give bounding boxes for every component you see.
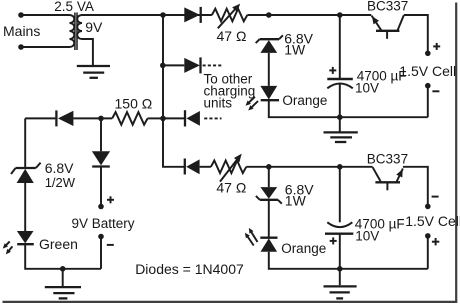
- diode D7: [92, 151, 110, 166]
- node 9V battery plus terminal: [98, 204, 104, 210]
- node junction rail1 zener column: [266, 12, 272, 18]
- wire mains bottom lead: [21, 46, 70, 48]
- capacitor C2 plus: [330, 237, 337, 244]
- diode D1: [184, 7, 200, 23]
- wire row3 right segment: [163, 117, 184, 119]
- ground bottom left: [45, 269, 81, 299]
- capacitor C1 plus: [329, 67, 336, 74]
- svg-text:9V: 9V: [85, 19, 103, 35]
- svg-text:BC337: BC337: [367, 152, 408, 167]
- svg-text:1W: 1W: [285, 193, 307, 209]
- label battery plus: [107, 196, 114, 203]
- node junction rail3 zener column: [266, 164, 272, 170]
- ground top section: [324, 117, 358, 142]
- LED orange bottom light arrows: [250, 230, 258, 242]
- LED orange top: [260, 86, 279, 100]
- node cell1 plus terminal: [425, 51, 431, 57]
- wire zener to green led: [24, 183, 26, 231]
- node junction rail2 ground: [337, 114, 343, 120]
- label cell2 plus: [432, 238, 439, 245]
- wire row3 diode to junction: [73, 117, 112, 119]
- node 9V battery minus terminal: [98, 234, 104, 240]
- LED orange bottom: [260, 238, 277, 252]
- node junction bottom left rail: [60, 266, 66, 272]
- wire diode to battery plus: [100, 167, 102, 205]
- wire orange led to rail2 corner: [269, 100, 428, 117]
- diode D5: [56, 110, 73, 126]
- svg-text:Green: Green: [39, 236, 78, 252]
- svg-text:1W: 1W: [284, 42, 306, 58]
- node mains terminal top: [18, 12, 24, 18]
- wire emitter to right column bottom: [403, 167, 428, 204]
- wire dashed to other charging units row2: [203, 64, 222, 66]
- label cell1 plus: [433, 43, 440, 50]
- LED green: [17, 231, 34, 244]
- wire junction column vertical: [163, 15, 184, 167]
- svg-text:47 Ω: 47 Ω: [217, 28, 247, 44]
- wire diode D8 to VR2: [200, 166, 211, 168]
- node junction row3 battery column: [98, 116, 104, 122]
- wire mains top lead: [21, 14, 70, 16]
- frame shadow bottom: [8, 302, 459, 305]
- wire zener ZD2 to orange led: [268, 200, 270, 238]
- transformer T1 secondary winding: [77, 15, 82, 39]
- svg-text:150 Ω: 150 Ω: [115, 95, 153, 111]
- svg-text:1.5V Cell: 1.5V Cell: [405, 213, 460, 229]
- wire capacitor C1 to rail2: [339, 84, 341, 117]
- wire cell2 plus to rail4: [427, 236, 429, 269]
- node junction row3 column: [160, 116, 166, 122]
- transformer T1 primary winding: [70, 15, 75, 47]
- label cell2 minus: [432, 196, 439, 198]
- ground transformer: [77, 66, 110, 78]
- node junction top rail / column: [160, 12, 166, 18]
- svg-text:Orange: Orange: [281, 241, 326, 256]
- svg-text:6.8V: 6.8V: [45, 160, 74, 176]
- transistor Q1 BC337: [372, 15, 404, 39]
- capacitor C2 wire upper: [339, 167, 341, 223]
- wire green led to bottom left rail: [25, 244, 101, 269]
- diode D6: [185, 110, 200, 126]
- wire row2 to diode: [163, 64, 184, 66]
- variable resistor VR1 zigzag: [212, 9, 247, 22]
- zener diode ZD3 6.8V 1/2W: [11, 163, 41, 183]
- variable resistor VR2 zigzag: [211, 161, 246, 174]
- wire cell1 minus to rail2: [427, 86, 429, 118]
- svg-text:Orange: Orange: [282, 93, 327, 108]
- node cell2 plus terminal: [425, 233, 431, 239]
- LED orange top light arrows: [247, 97, 255, 105]
- svg-text:Diodes = 1N4007: Diodes = 1N4007: [135, 261, 244, 277]
- wire left column: [24, 118, 26, 167]
- wire zener to orange led top: [268, 53, 270, 86]
- label cell1 minus: [432, 90, 439, 92]
- variable resistor VR1 arrow: [218, 7, 237, 28]
- variable resistor VR2 arrow: [220, 157, 239, 181]
- diode D8: [185, 159, 200, 175]
- wire rail3: [246, 166, 372, 168]
- wire row3 left segment: [25, 117, 55, 119]
- frame shadow right: [457, 6, 460, 303]
- svg-text:9V Battery: 9V Battery: [72, 216, 135, 231]
- svg-text:1/2W: 1/2W: [45, 175, 76, 190]
- svg-text:units: units: [204, 95, 233, 110]
- wire battery column upper: [100, 118, 102, 151]
- wire battery minus to rail: [100, 237, 102, 269]
- frame border bottom: [3, 301, 458, 303]
- svg-text:1.5V Cell: 1.5V Cell: [399, 63, 456, 79]
- svg-text:BC337: BC337: [367, 0, 408, 14]
- transistor Q2 BC337: [373, 167, 403, 190]
- node cell2 minus terminal: [425, 204, 431, 210]
- svg-text:47 Ω: 47 Ω: [216, 179, 246, 195]
- LED green light arrows: [4, 242, 9, 247]
- node junction row2: [160, 63, 166, 69]
- wire collector to right column top: [404, 15, 428, 52]
- node junction rail4 ground: [337, 266, 343, 272]
- svg-text:Mains: Mains: [3, 23, 40, 39]
- node cell1 minus terminal: [425, 83, 431, 89]
- ground bottom section: [324, 269, 357, 299]
- svg-text:10V: 10V: [355, 81, 379, 96]
- node junction rail3 capacitor column: [337, 164, 343, 170]
- wire dashed to other charging units row3: [204, 117, 221, 119]
- zener diode ZD2 6.8V 1W: [256, 167, 282, 204]
- capacitor C2 plates: [325, 222, 353, 233]
- svg-text:2.5 VA: 2.5 VA: [54, 0, 94, 14]
- wire capacitor C2 to rail4: [339, 234, 341, 269]
- wire row3 resistor to column: [148, 117, 163, 119]
- resistor R1 150 ohm zigzag: [112, 112, 147, 125]
- svg-text:10V: 10V: [355, 229, 379, 244]
- wire top rail: [82, 14, 212, 16]
- transformer T1 core: [74, 13, 76, 51]
- capacitor C1 4700uF wire: [339, 15, 341, 78]
- node mains terminal bottom: [18, 44, 24, 50]
- wire orange led bottom to rail4: [269, 252, 428, 269]
- diode D2: [184, 57, 200, 73]
- zener diode ZD1 6.8V 1W: [256, 35, 283, 53]
- capacitor C1 plates: [327, 79, 353, 88]
- label battery minus: [107, 244, 114, 246]
- frame border right: [455, 3, 457, 303]
- wire secondary bottom lead: [82, 39, 93, 66]
- node junction rail1 capacitor column: [337, 12, 343, 18]
